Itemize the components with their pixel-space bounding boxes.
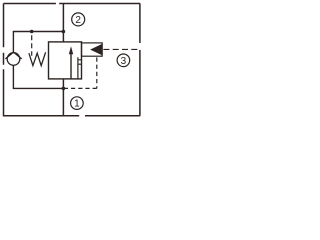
pilot line (dashed) to port 3	[103, 48, 139, 50]
svg-text:2: 2	[75, 15, 81, 26]
pilot line (dashed) to spring chamber	[31, 35, 33, 56]
drain line (dashed) horizontal to port 1	[65, 87, 97, 89]
port 1 label circle	[71, 97, 84, 110]
drain line (dashed) vertical	[96, 57, 98, 88]
check valve CV1 (ball and seat)	[7, 53, 20, 66]
spring S1	[29, 52, 46, 65]
wire: port 1 drop (valve box to bottom border)	[62, 79, 64, 115]
svg-text:1: 1	[74, 99, 80, 110]
main valve body V1	[49, 42, 82, 79]
junction dot C (lower branch / port 1 drop)	[62, 87, 66, 91]
junction dot B (upper branch / port 2 riser)	[62, 30, 66, 34]
pilot triangle (actuation)	[90, 44, 102, 55]
wire: lower check-valve branch	[13, 65, 63, 88]
wire: upper check-valve branch	[13, 32, 63, 53]
junction dot A (upper branch / spring pilot)	[30, 30, 34, 34]
enclosure border (long-dash rectangle)	[3, 4, 140, 116]
internal passage to pilot (port 3 side)	[78, 57, 82, 79]
port 3 label circle	[117, 54, 130, 67]
svg-text:3: 3	[121, 56, 127, 67]
flow arrow inside valve	[70, 53, 72, 79]
wire: port 2 riser (top border to valve box)	[62, 4, 64, 42]
port 2 label circle	[72, 13, 85, 26]
pilot section box	[82, 43, 103, 56]
